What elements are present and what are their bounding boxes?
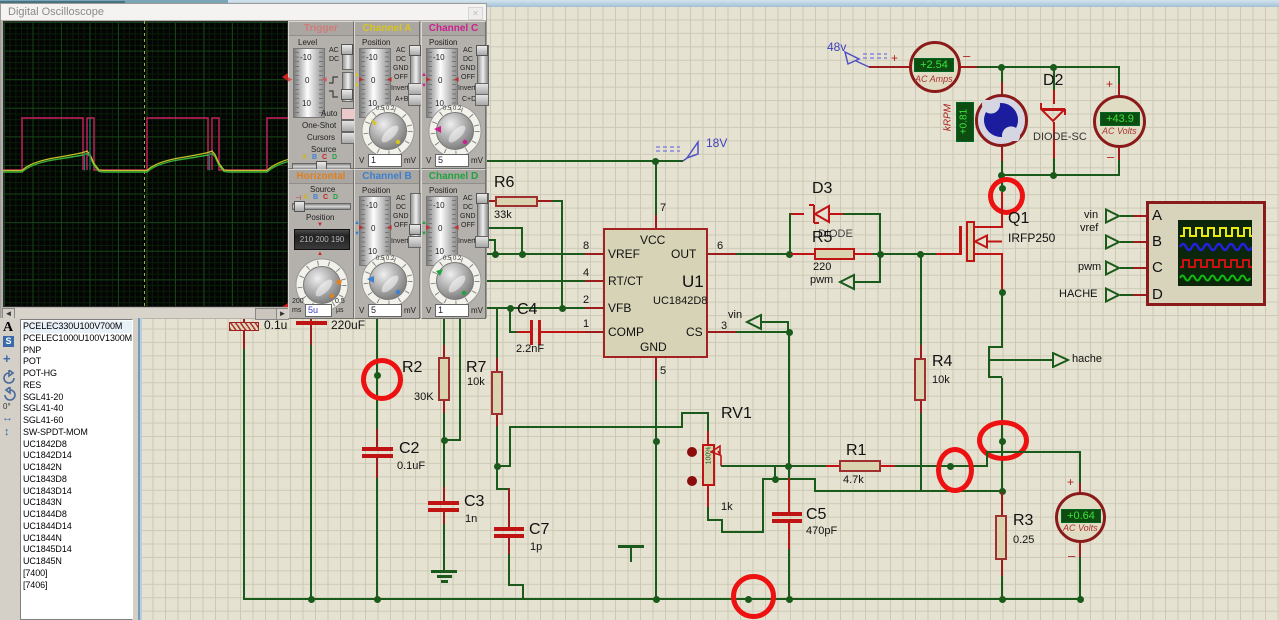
node motor bottom [998, 172, 1005, 179]
node R1 (circled) [947, 463, 954, 470]
C5 node wire [762, 478, 816, 480]
pin number 5 [660, 365, 666, 377]
R1 right lead [881, 465, 895, 467]
node drain (circled) [999, 185, 1006, 192]
jog up to sense node [986, 452, 988, 467]
wire ammeter to top rail [977, 66, 1120, 68]
node VFB R6 branch [559, 305, 566, 312]
wire 18V rail [487, 160, 683, 162]
motor bottom lead [1001, 147, 1003, 161]
pin 5 stub [655, 358, 657, 380]
node VREF-2 [519, 251, 526, 258]
IC U1 UC1842D8 [603, 228, 708, 358]
pin 3 stub [708, 331, 736, 333]
bottom rail of motor loop [1001, 174, 1120, 176]
node below source [999, 289, 1006, 296]
wire CS row [736, 331, 789, 333]
wire VFB row [485, 307, 585, 309]
RV1 body [702, 444, 715, 486]
pin number 3 [721, 320, 727, 332]
wire down to sense node [1001, 378, 1003, 493]
HACHE arrow to D [1104, 287, 1122, 303]
parts list [20, 319, 133, 620]
jog to RV1 wire [496, 465, 511, 467]
MOSFET Q1 [936, 253, 960, 255]
wire motor node down to Q1 drain [1001, 176, 1003, 188]
resistor R3 [995, 515, 1007, 560]
node pwm branch [877, 251, 884, 258]
label + voltmeter top [1106, 77, 1113, 91]
node R7 bottom [494, 463, 501, 470]
D3 anode wire to pwm node [843, 213, 881, 215]
editor left border [138, 318, 140, 620]
toolbar icons [3, 320, 13, 336]
R7 top lead from VFB row [496, 307, 498, 359]
node rail GND column [653, 596, 660, 603]
wire VCC drop [655, 161, 657, 215]
pin 2 stub [585, 307, 603, 309]
diode D2 [1053, 90, 1055, 104]
resistor R7 [491, 371, 503, 415]
capacitor C5 [788, 478, 790, 514]
floating ground symbol [618, 545, 644, 548]
D3 cathode lead [789, 213, 804, 215]
wire top rail to voltmeter [1118, 66, 1120, 84]
voltmeter drop [1079, 451, 1081, 484]
annotation circle at drain node [988, 177, 1025, 215]
node wiper/vin column [785, 463, 792, 470]
Channel C panel [421, 21, 486, 169]
screen centre dashed line [144, 21, 145, 307]
wiper wire [721, 465, 788, 467]
Channel D panel [421, 169, 486, 319]
label - [963, 48, 970, 63]
motor top lead [1001, 66, 1003, 82]
R2 top lead [443, 316, 445, 346]
title bar [1, 4, 486, 20]
voltmeter bottom lead [1118, 147, 1120, 160]
wire VREF row [485, 253, 585, 255]
hache branch wire [990, 359, 1054, 361]
node rail 220uF [308, 596, 315, 603]
node D2 bottom [1050, 172, 1057, 179]
pin number 4 [583, 267, 589, 279]
motor rpm lcd (rotated) [956, 102, 974, 142]
wire VFB to C4 [509, 308, 511, 333]
node rail C2 [374, 596, 381, 603]
label D2 [1043, 72, 1063, 90]
scrollbar [1, 307, 288, 319]
node R2/C3 [441, 437, 448, 444]
RV1 bullets [687, 447, 697, 457]
capacitor C2 [376, 429, 378, 449]
ammeter lead right [961, 66, 977, 68]
pwm arrow to C [1104, 260, 1122, 276]
D3 cathode drop to OUT node [789, 213, 791, 254]
AC Volts meter bottom [1055, 492, 1106, 543]
node VFB C4 branch [507, 305, 514, 312]
ground rail bottom [243, 598, 1081, 600]
vin column [788, 333, 790, 479]
D3 label DIODE [818, 228, 853, 240]
node rail voltmeter [1077, 596, 1084, 603]
scope hookup block [1146, 201, 1266, 306]
motor M1 [975, 94, 1028, 147]
node VCC rail [652, 158, 659, 165]
R1 left lead [826, 465, 839, 467]
wire scope-B jog lower [485, 239, 496, 241]
label - voltmeter bottom [1107, 149, 1114, 164]
pin 1 stub [585, 331, 603, 333]
node R4 branch [917, 251, 924, 258]
Channel A panel [354, 21, 420, 169]
R5 right lead [855, 253, 872, 255]
vin net arrow at CS [742, 312, 792, 336]
pin number 1 [583, 318, 589, 330]
pwm net arrow [835, 272, 885, 292]
mini screen [1178, 220, 1252, 286]
capacitor 220uF plate [296, 321, 327, 325]
node rail C5 [786, 596, 793, 603]
node sense (circled) [999, 438, 1006, 445]
diode D3 [812, 180, 832, 198]
node C5 top [772, 476, 779, 483]
wire R5 to gate [872, 253, 936, 255]
pin 4 stub [585, 280, 603, 282]
wiper jog down [774, 465, 776, 480]
label - meter [1068, 548, 1075, 563]
node OUT [786, 251, 793, 258]
AC Amps meter [909, 41, 961, 93]
wire RT/CT row [485, 280, 585, 282]
resistor R6 [495, 196, 538, 207]
pin number 8 [583, 240, 589, 252]
pin number 7 [660, 202, 666, 214]
pin 6 stub [708, 253, 736, 255]
waveforms [3, 21, 288, 307]
capacitor C1 0.1u (electrolytic, hatched) [243, 312, 245, 322]
pin number 2 [583, 294, 589, 306]
wire sense row to voltmeter [1002, 451, 1080, 453]
hache jog [988, 346, 1002, 348]
meter bottom lead [1079, 543, 1081, 557]
annotation circle rail node [731, 574, 776, 619]
label R2 [402, 359, 422, 377]
label + [891, 51, 898, 65]
vref arrow to B [1104, 234, 1122, 250]
node R2 (circled) [374, 372, 381, 379]
annotation circle R1 node [936, 447, 974, 493]
D2 anode wire [1053, 66, 1055, 90]
R6 left lead [486, 200, 495, 202]
node VREF-1 [492, 251, 499, 258]
wire C5 row to R3 node [814, 490, 1002, 492]
R3 top lead [1001, 492, 1003, 515]
AC Volts meter top [1093, 95, 1146, 148]
wire R6 to VFB node [552, 200, 562, 202]
capacitor C7 [496, 467, 498, 490]
pin 7 stub [655, 215, 657, 228]
Trigger panel [288, 21, 354, 169]
node CS [786, 329, 793, 336]
wire GND drop [655, 380, 657, 600]
Channel B panel [354, 169, 420, 319]
capacitor C4 [517, 331, 530, 333]
node at motor top [998, 64, 1005, 71]
R4 bottom lead [920, 401, 922, 413]
node rail R3 [999, 596, 1006, 603]
kRPM label (rotated) [943, 98, 954, 138]
ground below C3 [431, 570, 457, 573]
resistor R1 [839, 460, 881, 472]
resistor R2 body [438, 357, 450, 401]
power terminal 18V [650, 136, 705, 166]
RV1 wiper arrow [710, 444, 726, 468]
R7 bottom lead [496, 415, 498, 426]
R6 right lead [538, 200, 552, 202]
resistor R4 [914, 358, 926, 401]
pin number 6 [717, 240, 723, 252]
wire to RV1 top [509, 426, 683, 428]
label + meter [1067, 475, 1074, 489]
wire scope-A jog upper [485, 227, 523, 229]
top window strip [0, 0, 1279, 7]
node R3 top [999, 488, 1006, 495]
wire OUT row [736, 253, 789, 255]
potentiometer RV1 [721, 405, 752, 423]
pin 8 stub [585, 253, 603, 255]
wire R2 node drop from scope [376, 316, 378, 431]
annotation circle R2 node [361, 358, 403, 401]
wire Q1 source down [1001, 291, 1003, 348]
wire R1 to sense [895, 465, 988, 467]
screen [3, 21, 288, 307]
node rail circled [745, 596, 752, 603]
R5 left lead [791, 253, 814, 255]
R2 bottom lead [443, 401, 445, 414]
RV1 top lead [681, 425, 683, 427]
vin arrow to A [1104, 208, 1122, 224]
R3 bottom lead [1001, 560, 1003, 576]
label DIODE-SC [1033, 131, 1087, 143]
wire 48v to ammeter [869, 66, 909, 68]
annotation circle sense node [977, 420, 1029, 461]
wire node to hidden column [443, 439, 461, 441]
node at D2 top [1050, 64, 1057, 71]
capacitor C3 [443, 441, 445, 487]
hache net arrow [1050, 352, 1072, 368]
Horizontal panel [288, 169, 354, 319]
node on GND drop [653, 438, 660, 445]
D3 anode lead [829, 213, 843, 215]
R4 top lead [920, 254, 922, 346]
power terminal 48v [826, 40, 901, 75]
RV1 bottom lead [707, 486, 709, 508]
resistor R5 [812, 229, 832, 247]
